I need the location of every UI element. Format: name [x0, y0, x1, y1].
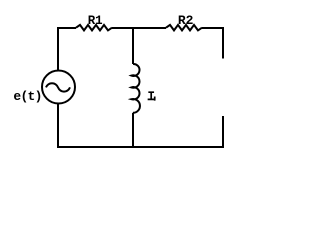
resistor R2	[166, 25, 202, 31]
svg-text:R2: R2	[178, 13, 194, 28]
wire: middle branch from inductor to bottom rail	[132, 113, 134, 147]
wire: top rail between R1 and R2	[112, 27, 166, 29]
wire: right side lower segment from open terminal	[222, 116, 224, 147]
wire: left side below source	[57, 104, 59, 147]
resistor R1	[76, 25, 112, 31]
svg-text:R1: R1	[88, 13, 103, 28]
sine wave inside source	[46, 83, 70, 91]
label L	[149, 92, 155, 100]
wire: bottom rail	[58, 146, 223, 147]
inductor L	[131, 64, 140, 113]
wire: top-right corner down to open terminal	[202, 28, 223, 59]
svg-text:e(t): e(t)	[13, 89, 42, 104]
voltage source e(t)	[42, 71, 75, 104]
wire: middle branch from top rail to inductor	[132, 28, 134, 64]
wire: top-left corner from source to top rail	[58, 28, 76, 70]
